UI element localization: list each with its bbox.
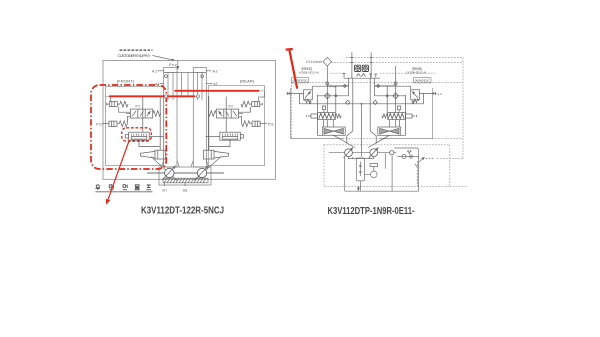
gear pump drain <box>391 156 393 192</box>
trunk center pilot line <box>361 104 363 157</box>
pump axis wire <box>329 152 397 154</box>
suction yoke <box>349 157 374 159</box>
junction dot trunk <box>361 103 363 105</box>
dashed tail <box>426 158 434 160</box>
trunk cross line <box>353 103 370 105</box>
svg-text:(X30B-0E11-4): (X30B-0E11-4) <box>299 71 319 75</box>
port tee marks <box>343 74 378 78</box>
svg-text:Pi1: Pi1 <box>96 122 102 126</box>
korean title block <box>95 185 152 192</box>
red marker T <box>286 49 298 89</box>
wire to pilot piston valve <box>109 96 111 101</box>
wire: supply header <box>287 92 304 94</box>
swash plate arrow P2 <box>369 148 379 158</box>
port A2 stub <box>206 70 211 72</box>
discharge pipe inner wall / trunk wall <box>347 78 353 143</box>
pilot relief block <box>356 158 364 181</box>
dashed rail upper <box>346 56 463 58</box>
relief loop wire <box>394 148 418 161</box>
relief arrow valve <box>419 157 424 162</box>
gauge stem left <box>350 52 353 78</box>
svg-text:a4: a4 <box>438 92 442 96</box>
wire: Psv drop <box>177 61 179 70</box>
svg-text:101mesh: 101mesh <box>306 60 323 64</box>
main regulator valve (3-pos) <box>126 109 153 118</box>
red annotation arrow <box>107 142 129 204</box>
junction diamond small <box>343 84 346 87</box>
inner regulator box <box>318 95 323 136</box>
rear section (mirrored copy of right front) <box>368 66 436 148</box>
svg-text:(REAR): (REAR) <box>240 79 255 84</box>
servo piston <box>140 150 165 159</box>
korean char 4 (ro) <box>135 185 139 190</box>
pump tower left (cylinder gallery) <box>164 68 177 168</box>
rear regulator cluster (mirrored copy of front) <box>204 96 268 159</box>
svg-text:0606DE0C: 0606DE0C <box>415 79 431 83</box>
swash plate arrow P1 <box>163 166 176 180</box>
wire gauge link <box>365 164 378 175</box>
check carets <box>357 74 366 77</box>
pilot valve Pi <box>102 121 117 126</box>
gear drain elbow <box>384 153 386 169</box>
center Psv gallery <box>177 72 193 96</box>
rear regulator box edges <box>379 88 432 139</box>
dashed center horizontal <box>291 138 463 140</box>
junction circle on red line <box>165 95 168 98</box>
wire: pilot lines into main valve <box>119 107 131 124</box>
front inner box <box>106 87 164 166</box>
red pressure line lower <box>109 95 195 97</box>
svg-text:P1: P1 <box>136 105 141 109</box>
wire: proportional valve to servo piston <box>139 140 160 146</box>
filter diamond <box>323 57 332 66</box>
spring of pilot valve Pi <box>117 121 127 127</box>
swash plate arrow P1 <box>344 148 354 158</box>
gray line under red pressure line upper <box>174 90 264 92</box>
korean char 3 (hoe) <box>123 185 127 190</box>
wire: prop valve to servo <box>324 120 334 127</box>
junction dot <box>335 95 337 97</box>
svg-text:a2: a2 <box>214 82 218 86</box>
junction circle <box>326 82 329 85</box>
svg-text:CUSTOMER'S SUPPLY: CUSTOMER'S SUPPLY <box>118 53 151 58</box>
linkage line to pump <box>334 135 355 147</box>
relief spring mark <box>407 151 411 154</box>
korean char 1 (yu) <box>95 185 100 190</box>
port box above prop valve <box>322 106 325 113</box>
discharge pipe outer wall <box>348 78 350 96</box>
port B1 tick <box>184 183 186 186</box>
relief wire row <box>398 156 419 158</box>
pilot piston valve (top-left) <box>107 102 118 107</box>
svg-text:Pi2: Pi2 <box>268 122 274 126</box>
wire: rung riser <box>335 86 337 112</box>
port circle top left <box>165 75 168 78</box>
tower feet flares <box>161 161 208 168</box>
dashed mid horizontal <box>331 72 436 74</box>
proportional reducing valve <box>126 132 150 140</box>
drive shaft hatched bar <box>163 178 208 183</box>
strikeout mark above supply label <box>120 49 153 51</box>
svg-text:Psv: Psv <box>330 84 337 88</box>
port circle top right <box>201 75 204 78</box>
svg-text:K3V112DT-122R-5NCJ: K3V112DT-122R-5NCJ <box>141 206 224 217</box>
port a2 stub <box>206 83 212 85</box>
pump P2 circle <box>197 168 206 177</box>
pump P1 circle <box>165 168 174 177</box>
wire: bottom drain lines <box>345 157 419 192</box>
gray line under red pressure line lower <box>106 95 199 97</box>
svg-text:a1: a1 <box>155 82 159 86</box>
svg-text:Psv: Psv <box>169 63 177 67</box>
check valve diamond <box>324 93 330 99</box>
rung upper <box>318 95 349 97</box>
dashed enclosures <box>291 57 468 186</box>
svg-text:0606DE0C: 0606DE0C <box>293 79 309 83</box>
wire: filter drop <box>326 66 328 113</box>
rear inner box <box>208 86 264 166</box>
port A1 stub <box>158 70 164 72</box>
label box front <box>292 78 309 83</box>
relief check diamond <box>409 155 413 159</box>
svg-text:K3V112DTP-1N9R-0E11-: K3V112DTP-1N9R-0E11- <box>328 206 415 217</box>
junction diamond on trunk <box>346 100 350 104</box>
red pressure line upper <box>174 90 259 92</box>
linkage rear servo to pump <box>194 157 221 181</box>
label box rear <box>414 78 432 83</box>
spring of pilot piston valve <box>117 101 128 107</box>
swash plate arrow P2 <box>195 166 208 180</box>
svg-text:Dr: Dr <box>163 189 168 193</box>
gauge square right <box>362 65 368 71</box>
pilot solenoid valve <box>304 86 349 103</box>
manifold line <box>344 77 381 79</box>
svg-text:P2: P2 <box>229 105 234 109</box>
port a1 stub <box>160 83 164 85</box>
pump housing <box>159 167 211 185</box>
pump tower right (cylinder gallery) <box>193 68 206 168</box>
proportional pressure valve <box>307 113 342 120</box>
svg-text:(X30B-0E11-4): (X30B-0E11-4) <box>406 71 426 75</box>
wire: prop valve to tower port <box>149 136 163 138</box>
pump P1 circle <box>345 149 353 157</box>
spring of main regulator valve <box>153 111 161 117</box>
outer frame <box>103 61 275 180</box>
rung lower <box>300 93 353 103</box>
port ticks left edge <box>288 92 290 95</box>
pilot relief circle <box>402 154 406 158</box>
dashed rail lower (from filter) <box>331 62 463 64</box>
gauge square left <box>355 65 361 71</box>
drive shaft line <box>147 172 224 174</box>
drain arrow tick <box>357 187 359 191</box>
front regulator box edges <box>291 88 344 139</box>
svg-text:(FRONT): (FRONT) <box>117 79 135 84</box>
korean title underline <box>96 191 153 193</box>
dashed bottom extension <box>450 185 468 187</box>
gauge stem right <box>370 52 373 78</box>
junction circle on red line <box>197 95 200 98</box>
dashed outer right edge <box>462 57 464 158</box>
drain tick arrow <box>415 164 417 167</box>
dashed drain vertical <box>417 161 419 186</box>
wire: main valve to proportional valve <box>142 97 144 133</box>
gear pump circle <box>390 151 394 155</box>
linkage front servo to pump <box>151 157 177 181</box>
servo piston <box>322 127 345 135</box>
wire: rear valve feed elbow <box>260 91 265 97</box>
dashed outer left edge <box>290 82 292 138</box>
svg-text:A1: A1 <box>152 69 157 73</box>
dashed bottom-right corner <box>437 158 463 160</box>
pump P2 circle <box>370 149 378 157</box>
red highlight small box (proportional valve) <box>122 128 152 141</box>
top-center gauge assembly <box>343 52 380 78</box>
gauge circle <box>371 171 378 178</box>
korean char 2 (ap) <box>109 185 113 190</box>
wire: manifold branch <box>327 85 348 87</box>
inner dashed box (pump group) <box>324 145 450 187</box>
korean char 5 (do) <box>146 185 151 190</box>
wire: customer's supply leader <box>153 56 176 61</box>
svg-text:A2: A2 <box>213 69 218 73</box>
dashed outer top edge <box>291 81 463 83</box>
svg-text:B1: B1 <box>183 189 188 193</box>
wire: right side vertical to servo <box>159 96 161 150</box>
highlight zone (red dash-dot rounded box) <box>91 85 166 169</box>
port Dr tick <box>164 183 166 186</box>
